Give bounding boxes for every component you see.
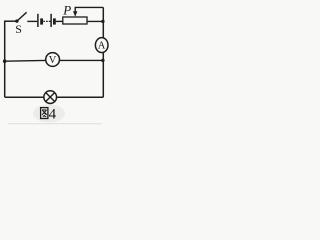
svg-text:A: A [98, 41, 106, 52]
wire battery to rheostat [56, 20, 63, 22]
rheostat body [63, 17, 87, 24]
battery cell2 long plate [50, 14, 52, 27]
rheostat slider arrow [74, 7, 76, 11]
svg-text:V: V [49, 55, 57, 66]
caption shading halo [33, 105, 65, 123]
switch S blade [17, 12, 27, 21]
wire rheostat right terminal [87, 20, 103, 22]
wire bottom right [57, 96, 104, 98]
svg-text:P: P [62, 2, 71, 17]
bottom scan artifact line [8, 122, 102, 125]
wire slider to top-right [75, 6, 104, 8]
wire switch to battery [27, 20, 37, 22]
lamp cross stroke 2 [46, 93, 55, 102]
wire between battery cells [43, 20, 50, 22]
battery cell1 long plate [37, 14, 39, 27]
lamp body [44, 91, 57, 104]
svg-text:S: S [15, 22, 22, 36]
caption character tu inner strokes [42, 110, 47, 117]
wire right vertical lower [102, 53, 104, 98]
node junction right voltmeter tap [101, 59, 104, 62]
node junction left voltmeter tap [3, 59, 7, 63]
switch S hinge node [15, 19, 18, 22]
wire voltmeter right [59, 59, 103, 61]
wire bottom left [5, 96, 44, 98]
lamp cross stroke 1 [46, 93, 55, 102]
battery cell1 short thick plate [40, 18, 43, 24]
node junction rheostat/right wire [101, 20, 104, 23]
caption character tu (figure) outer box [41, 108, 48, 119]
ammeter A body [95, 38, 108, 53]
wire top-left horizontal [4, 20, 16, 22]
svg-text:4: 4 [49, 107, 57, 123]
battery cell2 short thick plate [53, 18, 56, 24]
wire left vertical [4, 21, 6, 97]
wire voltmeter left [5, 59, 46, 62]
wire right vertical upper [102, 7, 104, 37]
voltmeter V body [46, 53, 60, 67]
